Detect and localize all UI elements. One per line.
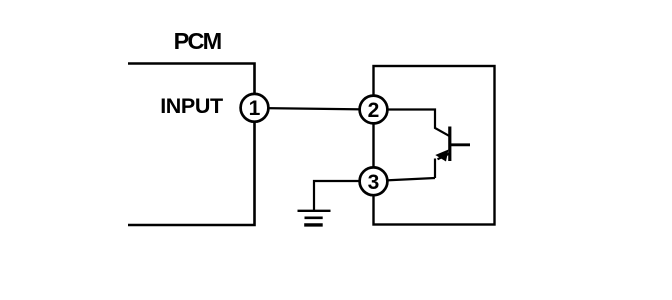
terminal node 2 bbox=[360, 96, 388, 124]
wire node1 to node2 bbox=[255, 108, 374, 110]
svg-text:INPUT: INPUT bbox=[160, 94, 223, 118]
transistor Q1 base lead bbox=[450, 143, 470, 146]
terminal node 1 bbox=[241, 94, 269, 122]
ground symbol bbox=[298, 210, 331, 212]
svg-text:PCM: PCM bbox=[174, 28, 221, 54]
transistor Q1 emitter with arrow bbox=[435, 154, 450, 179]
svg-text:3: 3 bbox=[368, 171, 380, 194]
terminal node 3 bbox=[360, 167, 388, 195]
wire node3 to ground bbox=[314, 181, 374, 210]
PCM box (open-left bracket) bbox=[128, 64, 255, 226]
component box bbox=[374, 66, 495, 225]
wire emitter to node3 bbox=[374, 178, 436, 181]
svg-text:2: 2 bbox=[368, 99, 380, 122]
wire node2 to transistor collector bbox=[374, 110, 450, 136]
transistor Q1 base bar bbox=[448, 127, 451, 162]
svg-text:1: 1 bbox=[249, 97, 261, 120]
